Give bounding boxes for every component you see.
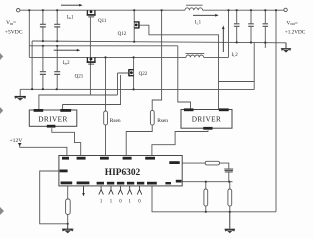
VID binary values xyxy=(100,200,141,205)
transistor Q21 xyxy=(87,57,96,64)
svg-text:Q12: Q12 xyxy=(118,32,127,37)
svg-text:Q11: Q11 xyxy=(98,19,107,24)
wire phase2 rail C right xyxy=(204,56,229,58)
svg-text:+1.2VDC: +1.2VDC xyxy=(285,29,306,35)
wire dashed mark above L2 xyxy=(186,53,205,55)
wire Vout rail after L1 xyxy=(203,9,284,11)
capacitor Cout3 xyxy=(264,10,266,48)
wire stub right of driver2 xyxy=(219,81,255,83)
svg-text:DRIVER: DRIVER xyxy=(38,115,68,124)
current arrow Iin2 xyxy=(54,49,80,52)
capacitor Cout1 xyxy=(236,10,238,42)
ground VSEN divider xyxy=(225,212,235,234)
transistor Q12 xyxy=(134,21,139,28)
capacitor Cin2a xyxy=(42,46,44,89)
svg-text:Vin=: Vin= xyxy=(6,20,16,26)
svg-text:Iin2: Iin2 xyxy=(63,61,70,66)
wire phase1 tap to Rsen2 xyxy=(152,10,161,110)
svg-text:IL1: IL1 xyxy=(195,21,202,26)
resistor R2 lead bottom xyxy=(229,206,231,212)
terminal arrow +12V xyxy=(18,143,22,146)
svg-text:+5VDC: +5VDC xyxy=(5,30,23,36)
svg-text:Q22: Q22 xyxy=(139,72,148,77)
wire +12V feed xyxy=(20,144,67,155)
box DRIVER1 xyxy=(29,109,77,128)
resistor R2 lead top xyxy=(229,182,231,189)
svg-text:Q21: Q21 xyxy=(75,75,84,80)
wire Q12 drain-source column xyxy=(133,10,135,42)
inductor L2 xyxy=(186,55,204,57)
svg-text:Vout=: Vout= xyxy=(287,20,298,26)
wire Q11 gate descender xyxy=(89,17,91,95)
node Vin terminal xyxy=(17,9,20,12)
wire ground bus A left drop xyxy=(31,41,33,89)
svg-text:DRIVER: DRIVER xyxy=(192,115,222,124)
resistor Rsen2 body xyxy=(150,110,154,125)
capacitor Ccomp xyxy=(224,169,233,172)
box DRIVER2 xyxy=(181,108,232,129)
resistor Rsen1 body xyxy=(104,111,108,125)
wire Vin drop to phase2 feed xyxy=(28,10,30,57)
wire FB run xyxy=(182,181,232,183)
edge speck bottom xyxy=(0,207,4,215)
wire main ground rail xyxy=(20,88,254,90)
wire Rsen2 bottom jog to ISEN2 xyxy=(126,125,152,155)
current arrow IL2 xyxy=(222,26,225,53)
capacitor Cout2 xyxy=(250,10,252,42)
wire Rsen1 bottom lead to ISEN1 xyxy=(105,125,107,155)
resistor R1 body xyxy=(204,189,208,206)
wire phase2 output riser xyxy=(228,10,230,57)
wire Q12 gate to driver2 xyxy=(139,25,219,109)
wire dashed mark above L1 xyxy=(186,4,203,6)
edge speck middle xyxy=(0,107,3,114)
current arrow IL1 xyxy=(193,14,219,17)
wire ground bus A xyxy=(32,41,286,43)
wire Rcomp to Ccomp xyxy=(220,163,229,169)
ground output right xyxy=(281,43,291,53)
wire feedback line from Vout xyxy=(275,10,277,212)
svg-text:IL2: IL2 xyxy=(232,53,239,58)
wire Rfs bottom xyxy=(67,214,69,225)
resistor R1 lead top xyxy=(205,182,207,189)
wire PWM2 run xyxy=(152,130,208,155)
capacitor Cin2b xyxy=(56,46,58,89)
wire phase2 rail C xyxy=(29,56,186,58)
wire Q22 drain column xyxy=(133,57,135,89)
current arrow Iin1 xyxy=(61,4,83,7)
VID jumper forks xyxy=(99,186,142,195)
wire VSEN run xyxy=(152,186,276,212)
svg-text:HIP6302: HIP6302 xyxy=(105,168,141,178)
ground left input xyxy=(15,97,26,101)
capacitor Cin1a xyxy=(42,10,44,41)
arrow PGOOD xyxy=(82,186,85,197)
node Vout terminal xyxy=(284,8,287,11)
edge speck top xyxy=(0,53,3,60)
inductor L1 xyxy=(185,8,203,10)
capacitor Cin1b xyxy=(56,10,58,41)
wire driver1 ugate run xyxy=(39,73,118,110)
ground FS/DIS xyxy=(62,225,73,233)
wire GND pin loop xyxy=(40,171,68,224)
wire ground riser right xyxy=(253,43,255,90)
wire Ccomp to FB xyxy=(228,172,230,182)
svg-text:Rsen: Rsen xyxy=(110,118,121,124)
wire Rsen1 top lead xyxy=(105,57,107,111)
wire FS/DIS pin lead xyxy=(67,186,69,199)
svg-text:Iin1: Iin1 xyxy=(67,15,74,20)
resistor Rcomp body xyxy=(205,161,219,165)
resistor R1 lead bottom xyxy=(205,206,207,212)
resistor R2 body xyxy=(228,189,232,206)
transistor Q11 xyxy=(87,10,96,17)
wire +5V phase2 line B xyxy=(29,45,178,47)
transistor Q22 xyxy=(129,69,134,76)
svg-text:+12V: +12V xyxy=(10,138,23,144)
wire PWM1 run xyxy=(52,128,81,155)
wire driver1 lgate run xyxy=(63,73,128,110)
wire driver2 phase run xyxy=(178,46,191,110)
wire +5V top rail xyxy=(20,9,185,11)
IC U1 HIP6302 xyxy=(59,156,182,186)
svg-text:Rsen: Rsen xyxy=(157,118,168,124)
wire COMP lead xyxy=(182,162,205,164)
resistor Rfs body xyxy=(66,199,71,214)
